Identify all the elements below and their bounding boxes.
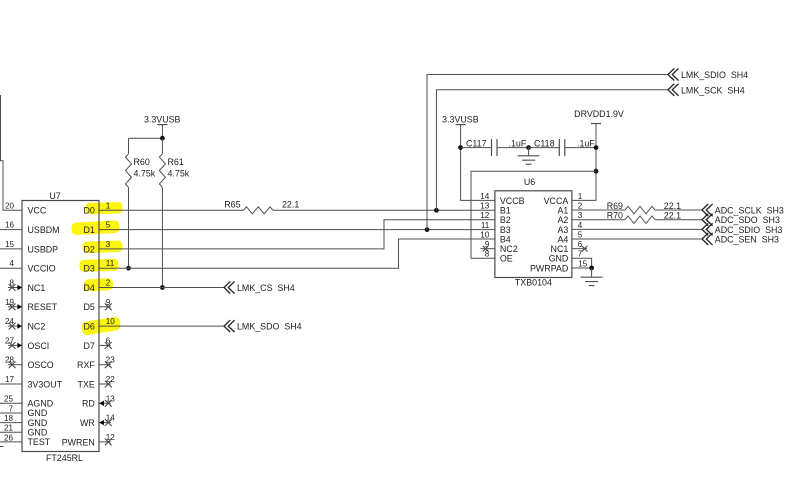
U6 left pin 10 B4	[480, 230, 511, 244]
svg-text:LMK_SCK SH4: LMK_SCK SH4	[681, 85, 745, 95]
wire D4 to LMK_CS	[99, 287, 224, 289]
svg-text:4: 4	[9, 259, 14, 268]
U6 right pin 7 GND	[549, 250, 583, 264]
svg-text:4.75k: 4.75k	[168, 169, 190, 179]
svg-text:D4: D4	[83, 283, 94, 293]
svg-text:3.3VUSB: 3.3VUSB	[144, 114, 181, 124]
svg-text:AGND: AGND	[28, 399, 54, 409]
svg-text:R65: R65	[224, 199, 240, 209]
port ADC_SCLK SH3	[702, 204, 784, 215]
highlight D2/pin3	[82, 240, 122, 253]
svg-text:22.1: 22.1	[664, 201, 681, 211]
wire VCC net to off-page	[1, 95, 23, 210]
svg-text:B1: B1	[500, 205, 511, 215]
U6 left pin 14 VCCB	[480, 192, 524, 206]
svg-text:4.75k: 4.75k	[134, 169, 156, 179]
U7 left pin 8 NC1	[8, 279, 45, 293]
U7 left pin 25 AGND	[0, 395, 53, 409]
junction R60/D3	[126, 266, 131, 271]
U7 left pin 19 RESET	[5, 298, 58, 312]
svg-text:R60: R60	[134, 157, 150, 167]
svg-text:B4: B4	[500, 234, 511, 244]
U7 left pin 28 OSCO	[5, 356, 54, 370]
wire LMK_SDIO net	[427, 75, 668, 230]
svg-text:11: 11	[106, 259, 115, 268]
port LMK_SDO SH4	[224, 321, 302, 332]
svg-text:GND: GND	[28, 427, 48, 437]
svg-text:A4: A4	[557, 234, 568, 244]
svg-text:VCCIO: VCCIO	[28, 264, 56, 274]
svg-text:VCCA: VCCA	[544, 196, 569, 206]
U7 right pin 1 D0	[83, 201, 110, 215]
U7 left pin 15 USBDP	[0, 240, 58, 254]
U7 left pin 18 GND	[0, 414, 47, 428]
port ADC_SDO SH3	[702, 214, 780, 225]
svg-text:GND: GND	[28, 408, 48, 418]
highlight D4/pin2	[84, 278, 114, 292]
svg-text:NC1: NC1	[28, 283, 46, 293]
port ADC_SDIO SH3	[702, 224, 782, 235]
U7 right pin 14 WR	[80, 414, 115, 428]
svg-text:D7: D7	[83, 341, 94, 351]
svg-text:PWREN: PWREN	[62, 437, 95, 447]
svg-text:A1: A1	[557, 205, 568, 215]
svg-text:USBDP: USBDP	[28, 244, 59, 254]
svg-text:2: 2	[106, 279, 111, 288]
power symbol 3.3VUSB (right)	[442, 114, 479, 124]
wire GND pin to ground	[572, 258, 592, 268]
U6 right pin 15 PWRPAD	[530, 259, 588, 273]
resistor R61 4.75k	[159, 138, 189, 287]
svg-text:3V3OUT: 3V3OUT	[28, 379, 63, 389]
svg-text:21: 21	[4, 424, 14, 433]
svg-text:11: 11	[481, 221, 490, 230]
wire D1 to U6 B3	[99, 229, 495, 231]
wire D0 to R65	[99, 209, 244, 211]
U7 right pin 12 PWREN	[62, 433, 116, 447]
U7 right pin 3 D2	[83, 240, 110, 254]
svg-text:3: 3	[106, 240, 111, 249]
U7 left pin 17 3V3OUT	[0, 375, 63, 389]
wire A3 to ADC_SDIO	[572, 228, 702, 230]
svg-text:3.3VUSB: 3.3VUSB	[442, 114, 479, 124]
svg-text:10: 10	[106, 317, 116, 326]
svg-text:RESET: RESET	[28, 302, 58, 312]
U6 right pin 1 VCCA	[544, 192, 583, 206]
resistor R70 22.1	[607, 211, 681, 224]
svg-text:15: 15	[578, 259, 588, 268]
port LMK_SDIO SH4	[668, 69, 748, 80]
svg-text:10: 10	[480, 230, 490, 239]
U7 left pin 7 GND	[0, 404, 47, 418]
svg-text:PWRPAD: PWRPAD	[530, 263, 568, 273]
resistor R65 22.1	[224, 199, 299, 213]
svg-text:VCC: VCC	[28, 206, 47, 216]
svg-text:3: 3	[578, 211, 583, 220]
svg-text:A2: A2	[557, 215, 568, 225]
svg-text:DRVDD1.9V: DRVDD1.9V	[574, 109, 624, 119]
wire OE to DRVDD	[471, 171, 596, 258]
wire A2 to R70	[572, 219, 625, 221]
U7 left pin wire dash at edge	[0, 446, 4, 448]
U7 right pin 10 D6	[83, 317, 115, 331]
port LMK_SCK SH4	[668, 84, 745, 95]
svg-text:C117: C117	[466, 138, 487, 148]
svg-text:RXF: RXF	[77, 360, 95, 370]
wire LMK_SCK net	[436, 90, 668, 211]
svg-text:D0: D0	[83, 206, 94, 216]
svg-text:ADC_SDO SH3: ADC_SDO SH3	[715, 215, 780, 225]
svg-text:WR: WR	[80, 418, 95, 428]
port ADC_SEN SH3	[702, 233, 779, 244]
svg-text:D1: D1	[83, 225, 94, 235]
svg-text:B3: B3	[500, 225, 511, 235]
highlight D6/pin10	[81, 316, 122, 335]
svg-text:ADC_SDIO SH3: ADC_SDIO SH3	[715, 225, 783, 235]
IC U6 TXB0104 body	[495, 191, 572, 278]
U7 right pin 9 D5	[83, 298, 111, 312]
svg-text:OE: OE	[500, 254, 513, 264]
wire D3 to U6 B4	[99, 239, 495, 268]
svg-text:D6: D6	[83, 322, 94, 332]
wire 3.3VUSB to resistors	[129, 137, 163, 139]
svg-text:NC1: NC1	[551, 244, 569, 254]
svg-text:D3: D3	[83, 264, 94, 274]
svg-text:ADC_SEN SH3: ADC_SEN SH3	[715, 235, 779, 245]
svg-text:12: 12	[480, 211, 490, 220]
junction cap ground tap	[526, 145, 531, 150]
junction LMK_SDIO/B3	[425, 227, 430, 232]
wire D6 to LMK_SDO	[99, 325, 224, 327]
U7 right pin 2 D4	[83, 279, 110, 293]
wire R65 to U6 B1	[273, 209, 495, 211]
svg-text:16: 16	[5, 221, 15, 230]
U7 right pin 23 RXF	[77, 356, 115, 370]
U7 left pin 4 VCCIO	[0, 259, 56, 273]
junction DRVDD/OE branch	[594, 169, 599, 174]
svg-text:R69: R69	[607, 201, 623, 211]
wire R69 to ADC_SCLK	[655, 209, 702, 211]
wire A1 to R69	[572, 209, 625, 211]
svg-text:NC2: NC2	[28, 322, 46, 332]
U7 right pin 11 D3	[83, 259, 114, 273]
capacitor C117 .1uF	[461, 138, 529, 156]
U7 left pin 16 USBDM	[0, 221, 60, 235]
svg-text:1: 1	[578, 192, 583, 201]
U6 left pin 12 B2	[480, 211, 511, 225]
wire D2 to U6 B2	[99, 220, 495, 249]
U7 right pin 13 RD	[82, 394, 115, 408]
U6 left pin 13 B1	[480, 201, 511, 215]
U6 left pin 11 B3	[481, 221, 511, 235]
svg-text:VCCB: VCCB	[500, 196, 525, 206]
svg-text:6: 6	[578, 240, 583, 249]
svg-text:TXE: TXE	[78, 379, 95, 389]
svg-text:GND: GND	[28, 418, 48, 428]
svg-text:NC2: NC2	[500, 244, 518, 254]
svg-text:4: 4	[578, 221, 583, 230]
junction R61/D4	[160, 285, 165, 290]
svg-text:A3: A3	[557, 225, 568, 235]
junction LMK_SCK/B1	[434, 208, 439, 213]
U6 right pin 4 A3	[557, 221, 582, 235]
U7 left pin 21 GND	[0, 424, 47, 438]
svg-text:2: 2	[578, 201, 583, 210]
svg-text:D5: D5	[83, 302, 94, 312]
svg-text:USBDM: USBDM	[28, 225, 60, 235]
svg-text:14: 14	[480, 192, 490, 201]
U7 left pin 24 NC2	[5, 317, 45, 331]
svg-text:R70: R70	[607, 211, 623, 221]
svg-text:LMK_SDO SH4: LMK_SDO SH4	[237, 322, 302, 332]
svg-text:15: 15	[5, 240, 15, 249]
svg-text:TXB0104: TXB0104	[515, 278, 552, 288]
power symbol 3.3VUSB (left)	[144, 114, 181, 138]
svg-text:ADC_SCLK SH3: ADC_SCLK SH3	[715, 206, 784, 216]
svg-text:5: 5	[578, 230, 583, 239]
junction DRVDD/cap	[594, 145, 599, 150]
junction PWRPAD/GND	[589, 266, 594, 271]
svg-text:RD: RD	[82, 399, 95, 409]
power symbol DRVDD1.9V	[574, 109, 624, 124]
svg-text:FT245RL: FT245RL	[46, 453, 83, 463]
svg-text:20: 20	[5, 201, 15, 210]
svg-text:1: 1	[106, 201, 111, 210]
svg-text:U6: U6	[524, 177, 535, 187]
U6 right pin 6 NC1	[551, 240, 588, 254]
svg-text:.1uF: .1uF	[509, 138, 527, 148]
junction at 3.3VUSB branch	[160, 136, 165, 141]
svg-text:GND: GND	[549, 254, 569, 264]
svg-text:.1uF: .1uF	[577, 138, 595, 148]
port LMK_CS SH4	[224, 282, 295, 293]
svg-text:13: 13	[480, 201, 490, 210]
svg-text:LMK_SDIO SH4: LMK_SDIO SH4	[681, 70, 748, 80]
wire R70 to ADC_SDO	[655, 219, 702, 221]
junction 3.3VUSB/cap	[458, 145, 463, 150]
IC U7 FT245RL body	[22, 201, 99, 452]
svg-text:TEST: TEST	[28, 437, 51, 447]
U7 right pin 22 TXE	[78, 375, 116, 389]
svg-text:8: 8	[485, 250, 490, 259]
U6 right pin 2 A1	[557, 201, 582, 215]
U7 left pin 26 TEST	[0, 433, 51, 447]
svg-text:5: 5	[106, 221, 111, 230]
svg-text:C118: C118	[534, 138, 555, 148]
svg-text:OSCO: OSCO	[28, 360, 54, 370]
highlight D1/pin5	[71, 220, 120, 235]
highlight D0/pin1	[85, 202, 122, 214]
svg-text:R61: R61	[168, 157, 184, 167]
wire DRVDD to VCCA	[572, 124, 596, 201]
svg-text:7: 7	[578, 250, 583, 259]
svg-text:26: 26	[4, 433, 14, 442]
U7 left pin 27 OSCI	[5, 336, 49, 350]
resistor R60 4.75k	[126, 138, 156, 268]
wire A4 to ADC_SEN	[572, 238, 702, 240]
svg-text:LMK_CS SH4: LMK_CS SH4	[237, 283, 295, 293]
svg-text:7: 7	[8, 404, 13, 413]
highlight D3/pin11	[79, 259, 118, 272]
U6 left pin 9 NC2	[481, 240, 518, 254]
wire PWRPAD to ground	[572, 267, 592, 269]
svg-text:22.1: 22.1	[282, 199, 299, 209]
svg-text:17: 17	[5, 375, 15, 384]
U6 right pin 3 A2	[557, 211, 582, 225]
U6 right pin 5 A4	[557, 230, 582, 244]
ground (caps)	[518, 148, 540, 165]
resistor R69 22.1	[607, 201, 681, 214]
svg-text:B2: B2	[500, 215, 511, 225]
U7 right pin 6 D7	[83, 336, 111, 350]
ground (PWRPAD)	[581, 268, 603, 286]
svg-text:22.1: 22.1	[664, 211, 681, 221]
wire 3.3VUSB to VCCB	[461, 125, 495, 201]
svg-text:25: 25	[4, 395, 14, 404]
capacitor C118 .1uF	[529, 138, 596, 156]
svg-text:D2: D2	[83, 244, 94, 254]
U7 left pin 20 VCC	[5, 201, 47, 215]
U7 right pin 5 D1	[83, 221, 110, 235]
svg-text:18: 18	[4, 414, 14, 423]
svg-text:OSCI: OSCI	[28, 341, 50, 351]
U6 left pin 8 OE	[485, 250, 513, 264]
svg-text:U7: U7	[49, 191, 60, 201]
